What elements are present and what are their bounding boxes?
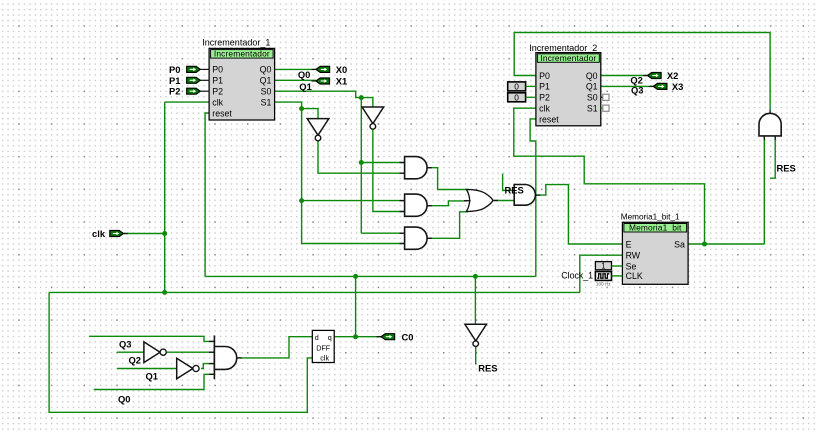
svg-text:Clock_1: Clock_1 [561, 270, 593, 280]
svg-text:1: 1 [601, 262, 605, 271]
svg-text:Incrementador_1: Incrementador_1 [202, 37, 270, 47]
svg-text:P0: P0 [539, 71, 550, 81]
svg-text:Q3: Q3 [631, 84, 644, 95]
output pin X3 [649, 85, 654, 87]
svg-text:RW: RW [626, 251, 641, 261]
wire net-clk stub into Incrementador_1 clk pin [165, 101, 209, 103]
svg-text:P0: P0 [169, 64, 180, 75]
svg-text:Sa: Sa [674, 239, 685, 249]
svg-text:S1: S1 [261, 97, 272, 107]
svg-text:Q3: Q3 [119, 339, 132, 350]
svg-text:DFF: DFF [316, 343, 331, 352]
svg-text:P0: P0 [212, 65, 223, 75]
AND gate U9 pointing up (top right) [759, 113, 781, 136]
wire net-Sa riser to AND U9 input A [763, 136, 765, 244]
junction S0 top [359, 95, 364, 100]
wire Memoria1_bit Sa output [688, 243, 764, 245]
svg-text:Q1: Q1 [586, 82, 598, 92]
constant 1 source at Memoria1_bit Se [595, 262, 622, 271]
wire net-reset riser from DFF q [355, 276, 357, 336]
input pin clk [110, 231, 124, 237]
wire named-net RES stub into AND U8 input A [503, 174, 515, 191]
svg-text:0: 0 [514, 81, 519, 91]
wire net-reset drop to RES inverter [474, 276, 476, 324]
AND gate U6 [400, 232, 405, 234]
inverter RES pointing down [465, 324, 487, 346]
svg-text:reset: reset [212, 108, 232, 118]
input pin P0 [187, 66, 201, 72]
OR gate U7 [466, 189, 493, 211]
svg-text:Q1: Q1 [260, 76, 272, 86]
AND gate U8 (RES) [535, 194, 540, 196]
wire named-net Q3 stub to AND U10 [89, 336, 214, 341]
output pin C0 [377, 336, 382, 338]
wire named-net Q1 stub to inverter U12 [117, 368, 177, 370]
svg-text:0: 0 [514, 92, 519, 102]
svg-text:RES: RES [505, 185, 524, 196]
junction net-Sa [702, 242, 707, 247]
svg-text:reset: reset [539, 114, 559, 124]
svg-text:Memoria1_bit_1: Memoria1_bit_1 [621, 212, 680, 221]
svg-text:Memoria1_bit: Memoria1_bit [629, 223, 682, 233]
wire AND U5 output to OR U7 input 2 [427, 201, 467, 206]
svg-text:q: q [328, 333, 332, 342]
component Incrementador_2 [536, 53, 601, 126]
junction at DFF q / C0 [353, 334, 358, 339]
wire S1 branch to AND gate U5 input A [302, 200, 405, 202]
wire inverter U3 output to AND gate U4 input B [318, 141, 405, 174]
svg-text:P1: P1 [212, 76, 223, 86]
wire net-clk right riser to Memoria1_bit RW [580, 255, 623, 292]
svg-text:clk: clk [320, 353, 329, 362]
wire AND U9 output to Incrementador_2 P0 (top run) [514, 33, 770, 110]
svg-text:Q0: Q0 [260, 65, 272, 75]
svg-text:clk: clk [212, 97, 223, 107]
wire S0 branch to AND gate U4 input A [361, 162, 404, 164]
wire net-reset horizontal (DFF q to reset pins) [205, 275, 536, 277]
svg-text:X1: X1 [336, 76, 347, 87]
svg-text:d: d [315, 333, 319, 342]
AND gate U10 4-input with input bar [209, 335, 242, 379]
wire Incrementador_1 Q1 to X1 [275, 79, 316, 81]
junction net-clk at clk pin tap [162, 231, 167, 236]
svg-text:C0: C0 [402, 331, 414, 342]
wire AND U8 output to Memoria1_bit E [535, 185, 622, 244]
svg-text:Q0: Q0 [586, 71, 598, 81]
svg-text:S0: S0 [587, 93, 598, 103]
AND gate U5 [400, 200, 405, 202]
svg-text:Q1: Q1 [146, 371, 159, 382]
wire net-reset right riser to Incrementador_2 reset [530, 119, 536, 277]
svg-text:P2: P2 [212, 87, 223, 97]
wire OR U7 output to AND U8 input B [488, 200, 514, 202]
wire AND U4 output to OR U7 input 1 [427, 168, 468, 190]
svg-text:E: E [626, 239, 632, 249]
wire net-clk vertical trunk [164, 102, 166, 292]
wire net-clk from clk input pin to Incrementador_1 clk [123, 233, 164, 235]
svg-text:CLK: CLK [626, 271, 643, 281]
wire AND U6 output to OR U7 input 3 [427, 212, 468, 239]
svg-text:X0: X0 [336, 64, 347, 75]
output pin X0 [312, 68, 317, 70]
D flip-flop DFF [312, 330, 334, 362]
junction net-clk trunk joins horizontal [162, 290, 167, 295]
junction net-reset at RES inverter drop [473, 274, 478, 279]
junction S1 at AND gate U5 branch [299, 198, 304, 203]
svg-text:P2: P2 [539, 93, 550, 103]
wire inverter U11 output to AND U10 [166, 351, 214, 353]
wire S1 from Incrementador_1 S1 [275, 102, 405, 243]
svg-text:S0: S0 [261, 87, 272, 97]
constant 0 source at Incrementador_2 P2 [508, 92, 536, 102]
junction S1 at inverter branch [299, 106, 304, 111]
wire net-reset left riser to Incrementador_1 reset [205, 113, 209, 276]
inverter U3 (S1) pointing down [307, 119, 329, 141]
clock source Clock_1 [595, 272, 622, 281]
component Memoria1_bit_1 [622, 222, 688, 284]
wire DFF q to C0 pin [334, 336, 381, 338]
wire named-net Q2 stub to inverter U11 [117, 351, 144, 353]
svg-text:RES: RES [777, 163, 796, 174]
wire net-clk left drop to DFF clk [49, 292, 312, 412]
wire S0 to AND gate U6 input A [361, 232, 404, 234]
svg-text:X3: X3 [672, 81, 683, 92]
svg-text:Se: Se [626, 261, 637, 271]
svg-text:100 Hz: 100 Hz [596, 282, 611, 287]
wire S1 branch to inverter U3 input [302, 109, 318, 119]
svg-text:S1: S1 [587, 104, 598, 114]
svg-text:X2: X2 [667, 70, 678, 81]
inverter U12 (Q1) pointing right [177, 358, 199, 379]
svg-text:Q1: Q1 [299, 81, 312, 92]
inverter U2 (S0) pointing down [362, 107, 384, 129]
svg-text:Incrementador: Incrementador [540, 53, 596, 63]
svg-text:Incrementador: Incrementador [214, 49, 270, 59]
svg-text:Q0: Q0 [118, 394, 131, 405]
unconnected terminal Incrementador_2 S1 [601, 105, 609, 111]
wire S0 from Incrementador_1 S0 [275, 91, 373, 107]
svg-text:Incrementador_2: Incrementador_2 [529, 43, 597, 53]
input pin P1 [187, 77, 201, 83]
wire Incrementador_2 Q1 to X3 [601, 85, 654, 87]
wire net-clk long horizontal [49, 291, 580, 293]
wire AND U10 output to DFF d [237, 337, 312, 358]
svg-text:Q0: Q0 [298, 69, 311, 80]
inverter U11 (Q2) pointing right [144, 342, 166, 363]
unconnected terminal Incrementador_2 S0 [601, 94, 609, 100]
component Incrementador_1 [209, 48, 275, 120]
output pin X1 [312, 80, 317, 82]
wire Incrementador_1 Q0 to X0 [275, 68, 316, 70]
wire RES inverter output stub [475, 347, 477, 365]
svg-text:clk: clk [92, 228, 106, 239]
junction net-reset at DFF q riser [353, 274, 358, 279]
svg-text:P1: P1 [539, 82, 550, 92]
svg-text:clk: clk [539, 104, 550, 114]
svg-text:Q2: Q2 [129, 355, 142, 366]
svg-text:P1: P1 [169, 75, 180, 86]
svg-text:P2: P2 [169, 86, 180, 97]
wire S0 vertical trunk [360, 98, 362, 234]
svg-text:RES: RES [478, 363, 497, 374]
AND gate U4 [400, 162, 405, 164]
wire Incrementador_2 Q0 to X2 [601, 75, 648, 77]
wire net-Sa to Incrementador_2 clk [514, 108, 705, 244]
wire named-net RES stub on AND U9 input B [770, 136, 775, 178]
input pin P2 [187, 88, 201, 94]
wire inverter U2 output to AND gate U5 input B [373, 129, 405, 211]
junction S0 at AND gate U4 branch [359, 160, 364, 165]
wire inverter U12 output to AND U10 [201, 364, 214, 369]
wire named-net Q0 stub to AND U10 [94, 374, 215, 389]
constant 0 source at Incrementador_2 P1 [508, 81, 536, 91]
output pin X2 [643, 75, 648, 77]
